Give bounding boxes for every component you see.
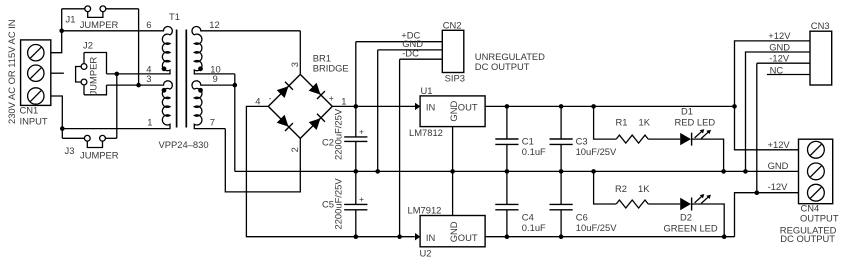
svg-text:+: + [359, 126, 364, 136]
svg-text:R2: R2 [615, 183, 627, 194]
svg-text:9: 9 [213, 73, 218, 84]
svg-text:LM7912: LM7912 [408, 205, 442, 216]
svg-text:U1: U1 [421, 85, 433, 96]
svg-text:GND: GND [448, 221, 459, 242]
svg-text:DC OUTPUT: DC OUTPUT [475, 61, 530, 72]
svg-text:D2: D2 [680, 212, 692, 223]
svg-text:1K: 1K [639, 117, 651, 128]
svg-text:U2: U2 [420, 248, 432, 259]
svg-text:C3: C3 [576, 135, 588, 146]
svg-text:T1: T1 [169, 11, 180, 22]
svg-text:3: 3 [146, 73, 151, 84]
svg-text:1: 1 [147, 116, 152, 127]
svg-text:OUT: OUT [458, 232, 478, 243]
svg-text:GREEN LED: GREEN LED [664, 222, 718, 233]
svg-text:D1: D1 [681, 106, 693, 117]
svg-text:2200uF/25V: 2200uF/25V [333, 178, 344, 230]
svg-text:J1: J1 [66, 14, 76, 25]
svg-text:SIP3: SIP3 [445, 73, 465, 84]
svg-text:CN1: CN1 [20, 105, 39, 116]
svg-text:CN2: CN2 [443, 19, 462, 30]
svg-text:12: 12 [209, 19, 219, 30]
svg-text:230V AC OR 115V AC IN: 230V AC OR 115V AC IN [6, 19, 17, 124]
svg-text:1: 1 [341, 95, 346, 106]
svg-text:7: 7 [210, 116, 215, 127]
svg-text:BRIDGE: BRIDGE [313, 63, 349, 74]
svg-text:+: + [359, 194, 364, 204]
svg-text:J3: J3 [65, 145, 75, 156]
svg-text:GND: GND [768, 160, 789, 171]
svg-text:IN: IN [426, 232, 435, 243]
svg-text:2: 2 [289, 147, 300, 152]
svg-text:4: 4 [255, 96, 260, 107]
svg-text:-DC: -DC [402, 47, 419, 58]
svg-text:1K: 1K [638, 183, 650, 194]
svg-text:VPP24–830: VPP24–830 [159, 139, 209, 150]
svg-text:-: - [269, 93, 272, 103]
svg-text:LM7812: LM7812 [409, 127, 443, 138]
svg-text:OUT: OUT [458, 101, 478, 112]
svg-text:DC OUTPUT: DC OUTPUT [780, 233, 835, 244]
svg-text:C4: C4 [522, 212, 534, 223]
svg-text:OUTPUT: OUTPUT [800, 213, 839, 224]
svg-text:C6: C6 [576, 212, 588, 223]
svg-text:GND: GND [769, 41, 790, 52]
svg-text:RED LED: RED LED [675, 117, 716, 128]
svg-text:JUMPER: JUMPER [80, 150, 119, 161]
svg-text:2200uF/25V: 2200uF/25V [333, 108, 344, 160]
svg-text:10uF/25V: 10uF/25V [576, 222, 617, 233]
svg-text:6: 6 [146, 19, 151, 30]
svg-text:INPUT: INPUT [20, 116, 48, 127]
svg-text:3: 3 [289, 62, 300, 67]
svg-text:CN3: CN3 [811, 20, 830, 31]
svg-text:JUMPER: JUMPER [87, 57, 98, 96]
svg-text:+: + [329, 93, 334, 103]
svg-text:10uF/25V: 10uF/25V [576, 146, 617, 157]
svg-text:0.1uF: 0.1uF [522, 222, 546, 233]
svg-text:J2: J2 [83, 40, 93, 51]
svg-text:+12V: +12V [768, 139, 791, 150]
svg-text:+12V: +12V [768, 30, 791, 41]
svg-text:GND: GND [448, 101, 459, 122]
svg-text:-12V: -12V [768, 181, 789, 192]
svg-text:NC: NC [770, 65, 784, 76]
svg-text:-12V: -12V [769, 53, 790, 64]
svg-text:0.1uF: 0.1uF [522, 146, 546, 157]
svg-text:R1: R1 [616, 117, 628, 128]
svg-text:JUMPER: JUMPER [80, 19, 119, 30]
svg-text:C1: C1 [522, 135, 534, 146]
svg-text:IN: IN [426, 101, 435, 112]
